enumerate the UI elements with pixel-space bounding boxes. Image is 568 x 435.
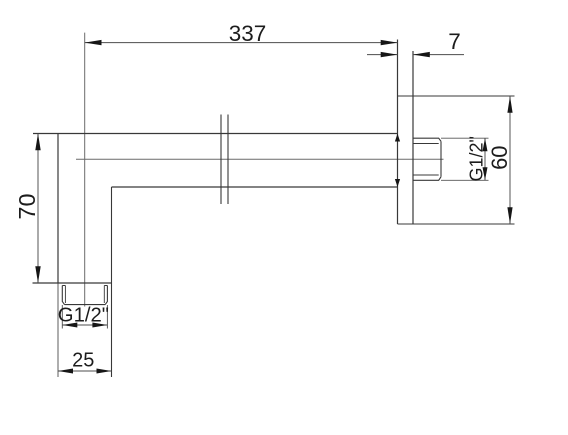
- dimension G1/2 right: [483, 138, 488, 180]
- arm tube top edge (with 70-dim extension): [33, 133, 398, 135]
- down-leg right edge (with 25-dim extension): [111, 187, 113, 377]
- centerline horizontal (pipe axis): [76, 158, 444, 160]
- svg-text:G1/2": G1/2": [467, 136, 487, 181]
- down-leg left 25-dim extension: [57, 283, 59, 377]
- dimension 7: [367, 52, 464, 57]
- wall flange plate left face (with extension up to 337 dim): [397, 40, 399, 225]
- svg-text:25: 25: [72, 350, 94, 372]
- dimension G1/2 bottom: [62, 305, 107, 329]
- svg-text:337: 337: [229, 21, 267, 46]
- flange bottom edge (with 60-dim extension): [398, 223, 515, 225]
- inlet thread G1/2 stub: [414, 138, 442, 180]
- dimension 25: [58, 369, 112, 374]
- dimension 337: [85, 40, 398, 45]
- wall flange plate right face (with extension up to 7 dim): [412, 51, 414, 224]
- arm tube bottom edge: [112, 186, 398, 188]
- svg-text:60: 60: [487, 145, 512, 169]
- flange top edge (with 60-dim extension): [398, 95, 515, 97]
- dimension 70: [35, 134, 40, 284]
- svg-text:G1/2": G1/2": [58, 304, 109, 326]
- arm profile arrowheads at flange: [395, 134, 400, 142]
- down-leg left edge: [57, 134, 59, 284]
- outlet end face (with 70-dim bottom extension): [33, 282, 112, 284]
- centerline vertical (outlet axis / 337 extension): [84, 33, 86, 307]
- svg-text:7: 7: [448, 29, 461, 54]
- dimension 60: [507, 96, 512, 224]
- slip collar on arm: [221, 115, 228, 205]
- inlet thread dim extensions (G1/2 right): [441, 138, 489, 180]
- svg-text:70: 70: [14, 193, 40, 219]
- outlet thread G1/2: [62, 286, 107, 305]
